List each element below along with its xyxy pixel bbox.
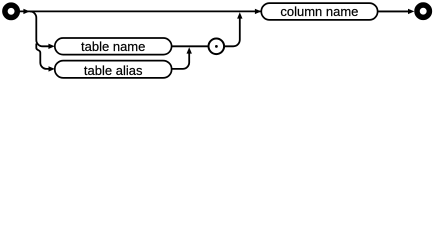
svg-text:table name: table name [81, 39, 145, 54]
wire: table-name row to dot terminal [172, 45, 208, 47]
wire: branch down from main line to table-name row [30, 11, 49, 46]
wire: table-alias row up-merge into table-name row [172, 53, 190, 69]
wire: main horizontal line [20, 10, 410, 12]
arrow right before table name box [48, 44, 54, 49]
arrow up merge into main line [237, 12, 242, 18]
dot terminal circle [209, 39, 225, 55]
arrow right on main line after start [23, 9, 29, 14]
box: column name [261, 3, 377, 20]
arrow right before column name box [255, 9, 261, 14]
box: table alias [55, 61, 172, 78]
wire: column-name box to end bullet [378, 10, 410, 12]
svg-text:table alias: table alias [84, 63, 143, 78]
wire: bus continuation jog to table-alias row [36, 44, 49, 69]
box: table name [55, 38, 172, 55]
wire: dot terminal up-merge into main line [225, 17, 240, 46]
arrow right before table alias box [49, 66, 55, 71]
svg-text:column name: column name [280, 4, 358, 19]
dot terminal period [215, 45, 218, 48]
arrow up merge of alias row [187, 47, 192, 53]
end bullet [417, 5, 429, 17]
arrow right before end bullet [408, 9, 414, 14]
start bullet [5, 5, 17, 17]
